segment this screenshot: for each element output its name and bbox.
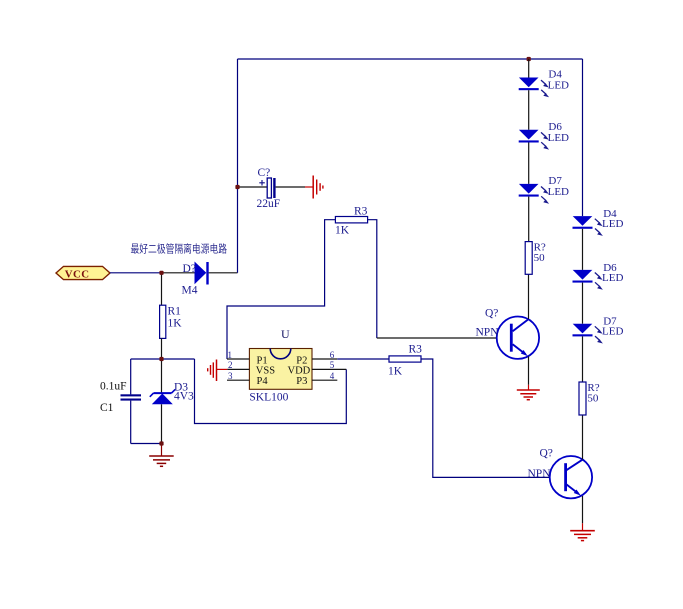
svg-text:R3: R3 <box>354 205 368 217</box>
svg-text:3: 3 <box>228 371 233 381</box>
svg-text:NPN: NPN <box>528 468 552 480</box>
svg-text:LED: LED <box>602 272 623 284</box>
wire node to capacitor C? <box>238 186 268 188</box>
svg-text:1K: 1K <box>388 365 403 377</box>
ground below Q1 <box>517 385 540 400</box>
transistor Q1 NPN <box>476 308 540 359</box>
resistor R1 1K <box>160 305 183 338</box>
pin 5 stub <box>312 368 346 370</box>
wire top rail <box>238 58 583 60</box>
svg-text:LED: LED <box>548 186 569 198</box>
IC U SKL100 <box>249 327 312 403</box>
svg-text:2: 2 <box>228 360 233 370</box>
svg-text:6: 6 <box>330 350 335 360</box>
svg-text:0.1uF: 0.1uF <box>100 381 127 393</box>
LED D7 (column 1) <box>519 175 569 204</box>
svg-text:U: U <box>281 327 290 341</box>
wire col1 seg <box>528 90 530 130</box>
zener diode D3 4V3 <box>150 382 194 405</box>
capacitor C1 0.1uF <box>100 359 141 444</box>
node junction at zener row <box>159 357 163 361</box>
svg-text:R1: R1 <box>168 305 182 317</box>
svg-text:4: 4 <box>330 371 335 381</box>
svg-text:VCC: VCC <box>65 269 90 281</box>
wire R3 bottom to Q2 base <box>421 359 566 477</box>
signal ground at VSS (red, pointing left) <box>208 360 228 382</box>
resistor R3 1K (bottom) <box>388 343 422 377</box>
svg-text:SKL100: SKL100 <box>249 391 288 403</box>
LED D7 (column 2) <box>573 316 624 344</box>
wire VDD return path <box>195 359 347 424</box>
wire zener top <box>161 359 163 393</box>
wire col1 seg to R? <box>528 197 530 242</box>
svg-text:LED: LED <box>548 80 569 92</box>
svg-text:50: 50 <box>587 393 599 405</box>
svg-text:P4: P4 <box>257 376 269 387</box>
wire node to diode anode <box>162 272 195 274</box>
resistor R? 50 (column 1) <box>525 242 546 275</box>
wire col2 drop <box>582 59 584 216</box>
pin 1 stub <box>227 358 249 360</box>
power port VCC <box>56 266 110 280</box>
wire vertical riser x=237.5 <box>237 59 239 273</box>
wire R1 top <box>161 273 163 305</box>
wire pin6 to R3 bottom <box>337 358 389 360</box>
wire R1 bottom <box>161 338 163 359</box>
svg-text:D?: D? <box>183 263 196 275</box>
LED D4 (column 2) <box>573 208 624 236</box>
svg-text:最好二极管隔离电源电路: 最好二极管隔离电源电路 <box>131 243 228 256</box>
pin 2 stub <box>227 368 249 370</box>
wire Q1 collector <box>528 274 530 319</box>
svg-text:C1: C1 <box>100 402 114 414</box>
wire capacitor to ground lead <box>276 186 305 188</box>
resistor R3 1K (top) <box>335 205 368 236</box>
ground below zener <box>149 444 174 467</box>
wire Q2 collector <box>582 415 584 459</box>
svg-text:50: 50 <box>534 252 546 264</box>
svg-text:1K: 1K <box>335 225 350 237</box>
wire col2 seg <box>582 283 584 324</box>
resistor R? 50 (column 2) <box>579 382 600 415</box>
diode D? M4 <box>182 262 208 297</box>
svg-text:C?: C? <box>258 167 271 179</box>
svg-text:Q?: Q? <box>540 448 553 460</box>
wire col2 seg to R? <box>582 336 584 382</box>
node junction at VCC row <box>159 271 163 275</box>
wire row y=359 <box>131 358 195 360</box>
wire pin1 riser path <box>227 220 335 359</box>
LED D6 (column 1) <box>519 121 569 150</box>
LED D6 (column 2) <box>573 262 624 290</box>
svg-text:NPN: NPN <box>476 327 500 339</box>
svg-text:1: 1 <box>228 350 233 360</box>
wire R3 top to Q1 base <box>368 220 377 338</box>
earth ground at C? (red, pointing right) <box>305 176 323 199</box>
wire col2 seg <box>582 229 584 270</box>
capacitor C? 22uF <box>257 167 281 210</box>
svg-text:Q?: Q? <box>485 308 498 320</box>
node junction at top rail <box>527 57 531 61</box>
ground below Q2 <box>570 523 595 540</box>
pin 6 stub <box>312 358 337 360</box>
wire bottom row to C1 <box>131 443 162 445</box>
wire col1 seg <box>528 143 530 184</box>
node junction at cap row <box>235 185 239 189</box>
wire col1 top <box>528 59 530 78</box>
svg-text:P3: P3 <box>296 376 307 387</box>
transistor Q2 NPN <box>528 448 593 499</box>
svg-text:LED: LED <box>602 326 623 338</box>
wire Q2 emitter <box>582 496 584 523</box>
svg-text:LED: LED <box>548 132 569 144</box>
wire diode cathode to corner <box>209 272 238 274</box>
wire VCC to node <box>110 272 162 274</box>
svg-text:1K: 1K <box>168 318 183 330</box>
node junction at bottom row <box>159 441 163 445</box>
pin 3 stub <box>227 379 249 381</box>
wire Q1 emitter <box>528 356 530 385</box>
svg-text:22uF: 22uF <box>257 198 281 210</box>
wire Q1 base horizontal <box>377 337 511 339</box>
LED D4 (column 1) <box>519 69 569 98</box>
svg-text:5: 5 <box>330 360 335 370</box>
svg-text:R3: R3 <box>409 343 423 355</box>
svg-text:M4: M4 <box>182 285 198 297</box>
wire zener bottom <box>161 404 163 443</box>
svg-text:LED: LED <box>602 218 623 230</box>
svg-text:4V3: 4V3 <box>174 390 194 402</box>
pin 4 stub <box>312 379 337 381</box>
